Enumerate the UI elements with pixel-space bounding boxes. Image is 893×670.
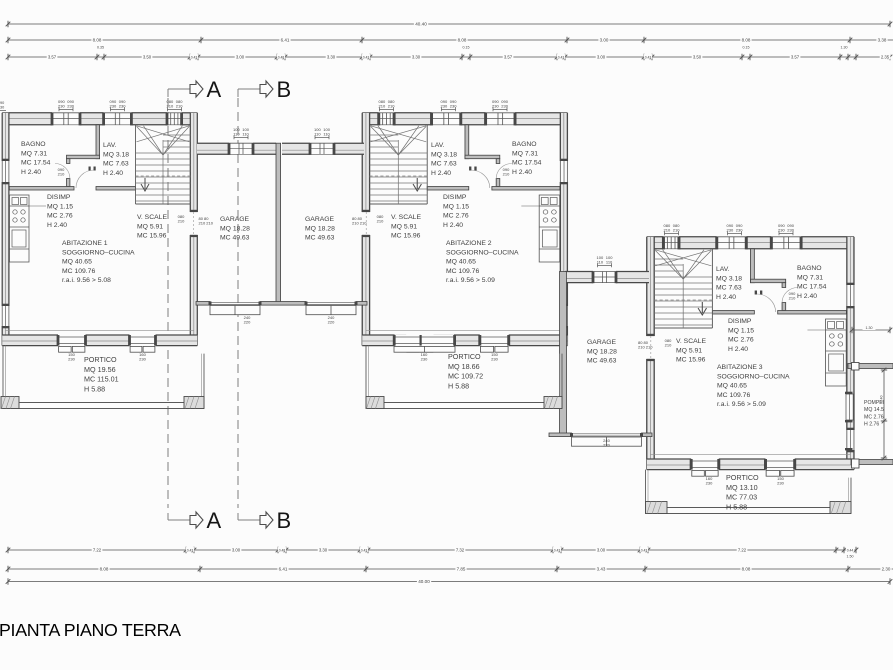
section marker B (238, 508, 291, 533)
svg-text:230: 230 (68, 357, 75, 362)
stair V.SCALE (426, 125, 428, 204)
side door labels (199, 216, 654, 350)
svg-text:MQ 1.15: MQ 1.15 (728, 327, 754, 334)
svg-text:8.08: 8.08 (742, 38, 751, 43)
svg-text:230: 230 (139, 357, 146, 362)
svg-text:DISIMP: DISIMP (728, 318, 752, 325)
svg-text:H 2.40: H 2.40 (431, 170, 451, 177)
svg-text:B: B (277, 508, 292, 533)
svg-text:230: 230 (67, 104, 74, 109)
wall corridor (disimp) (9, 187, 74, 191)
svg-text:3.00: 3.00 (600, 38, 609, 43)
svg-text:SOGGIORNO–CUCINA: SOGGIORNO–CUCINA (446, 249, 519, 256)
svg-text:MC 7.63: MC 7.63 (103, 161, 129, 168)
svg-text:MQ 40.65: MQ 40.65 (717, 383, 747, 390)
svg-text:7.22: 7.22 (93, 548, 102, 553)
svg-text:ABITAZIONE 2: ABITAZIONE 2 (446, 240, 492, 247)
svg-text:230: 230 (736, 228, 743, 233)
svg-text:210: 210 (673, 228, 680, 233)
window left wall lower (560, 306, 567, 326)
svg-text:MQ 14.5: MQ 14.5 (864, 407, 884, 413)
stair V.SCALE (135, 125, 137, 204)
svg-text:MQ 18.66: MQ 18.66 (448, 362, 480, 371)
svg-text:210: 210 (503, 172, 510, 177)
wall bagno-lav divider (96, 125, 100, 159)
svg-text:0.15: 0.15 (463, 45, 470, 49)
portico door symbols 2 (691, 459, 719, 470)
stair V.SCALE (711, 249, 713, 328)
svg-text:H 2.40: H 2.40 (512, 169, 532, 176)
svg-text:210: 210 (377, 219, 384, 224)
svg-text:MQ 5.91: MQ 5.91 (391, 223, 417, 230)
svg-text:1.50: 1.50 (847, 555, 854, 559)
svg-text:H 5.88: H 5.88 (726, 502, 747, 511)
svg-text:210 210: 210 210 (352, 221, 367, 226)
unit outer bottom wall (795, 459, 854, 470)
svg-text:0.35: 0.35 (97, 45, 104, 49)
window left wall upper (2, 161, 9, 182)
svg-text:MC 2.76: MC 2.76 (728, 337, 754, 344)
svg-text:V. SCALE: V. SCALE (137, 214, 167, 221)
svg-text:GARAGE: GARAGE (587, 339, 617, 346)
svg-text:MC 109.76: MC 109.76 (446, 268, 479, 275)
portico door symbols 2 (406, 335, 433, 346)
unit 2 dwelling (mirrored) (362, 113, 568, 352)
svg-text:6.41: 6.41 (279, 567, 288, 572)
window left wall lower (847, 430, 854, 450)
svg-text:MQ 40.65: MQ 40.65 (62, 259, 92, 266)
svg-text:3.38: 3.38 (878, 38, 887, 43)
overhang line (5, 330, 194, 332)
svg-text:SOGGIORNO–CUCINA: SOGGIORNO–CUCINA (717, 373, 790, 380)
svg-text:3.30: 3.30 (327, 55, 336, 60)
svg-text:MQ 18.28: MQ 18.28 (220, 225, 250, 232)
unit outer right wall (362, 113, 369, 212)
svg-text:210: 210 (178, 219, 185, 224)
svg-text:MC 17.54: MC 17.54 (21, 160, 51, 167)
svg-text:90: 90 (0, 101, 4, 105)
svg-text:BAGNO: BAGNO (21, 141, 46, 148)
svg-text:PORTICO: PORTICO (84, 355, 117, 364)
svg-text:BAGNO: BAGNO (797, 265, 822, 272)
svg-text:220: 220 (603, 443, 610, 448)
dim top level2 (6, 36, 893, 43)
label LAV U2 (431, 142, 457, 177)
svg-text:3.57: 3.57 (48, 55, 57, 60)
svg-text:0.43: 0.43 (641, 548, 648, 552)
svg-text:MC 77.03: MC 77.03 (726, 493, 757, 502)
svg-text:110: 110 (323, 132, 330, 137)
unit outer left wall (847, 237, 854, 285)
svg-text:3.50: 3.50 (143, 55, 152, 60)
svg-text:MC 7.63: MC 7.63 (431, 161, 457, 168)
garage 3 top wall (565, 272, 593, 283)
svg-text:3.43: 3.43 (597, 567, 606, 572)
pompe room top wall (848, 364, 893, 369)
svg-text:2.35: 2.35 (881, 55, 890, 60)
dim vertical pompe (883, 370, 885, 458)
svg-text:230: 230 (491, 357, 498, 362)
window top wall 2 (104, 113, 132, 125)
svg-text:r.a.i. 9.56 > 5.08: r.a.i. 9.56 > 5.08 (62, 277, 111, 284)
unit outer left wall (560, 113, 567, 161)
svg-text:MC 49.63: MC 49.63 (220, 235, 250, 242)
wall bagno lower divider (751, 279, 786, 283)
label ABITAZIONE U1 (62, 240, 135, 284)
pompe room bottom wall (851, 460, 893, 465)
unit outer left wall (2, 113, 9, 161)
svg-text:MQ 19.56: MQ 19.56 (84, 365, 116, 374)
section marker A (168, 508, 222, 533)
svg-text:0.48: 0.48 (278, 55, 285, 59)
svg-text:0.15: 0.15 (743, 45, 750, 49)
dim 1.30 right of unit3 (852, 329, 890, 331)
svg-text:0.43: 0.43 (187, 548, 194, 552)
svg-text:MQ 40.65: MQ 40.65 (446, 259, 476, 266)
garage pair bottom wall (196, 302, 210, 306)
svg-text:0.43: 0.43 (361, 548, 368, 552)
wall bagno door jambs (67, 159, 70, 164)
svg-text:MC 2.76: MC 2.76 (443, 213, 469, 220)
svg-text:210: 210 (789, 296, 796, 301)
window labels unit3 (727, 223, 744, 233)
svg-text:MQ 1.15: MQ 1.15 (443, 203, 469, 210)
svg-text:MC 115.01: MC 115.01 (84, 375, 119, 384)
window left wall upper (847, 285, 854, 306)
garage 3 bottom wall (549, 433, 572, 437)
label GARAGE 2 (305, 216, 335, 242)
svg-text:220: 220 (244, 320, 251, 325)
svg-text:MQ 18.28: MQ 18.28 (587, 348, 617, 355)
svg-text:r.a.i. 9.56 > 5.09: r.a.i. 9.56 > 5.09 (717, 401, 766, 408)
svg-text:0.43: 0.43 (191, 55, 198, 59)
svg-text:A: A (207, 508, 222, 533)
window top wall 1 (486, 113, 515, 125)
svg-text:MQ 18.28: MQ 18.28 (305, 225, 335, 232)
svg-text:8.08: 8.08 (458, 38, 467, 43)
svg-text:8.08: 8.08 (100, 567, 109, 572)
svg-text:3.57: 3.57 (504, 55, 513, 60)
svg-text:MC 15.96: MC 15.96 (137, 233, 167, 240)
svg-text:30: 30 (0, 106, 4, 110)
svg-text:H 2.40: H 2.40 (47, 222, 67, 229)
svg-text:MC 49.63: MC 49.63 (305, 235, 335, 242)
svg-text:0.48: 0.48 (279, 548, 286, 552)
wall bagno-lav divider (751, 249, 755, 283)
unit outer bottom wall (2, 335, 58, 346)
garage 3 window (593, 272, 616, 283)
svg-text:DISIMP: DISIMP (443, 194, 467, 201)
door labels unit1 bottom (68, 352, 75, 362)
kitchen counter (539, 195, 560, 262)
svg-text:MQ 5.91: MQ 5.91 (137, 223, 163, 230)
svg-text:DISIMP: DISIMP (47, 194, 71, 201)
svg-text:40.00: 40.00 (418, 579, 430, 584)
svg-text:MC 7.63: MC 7.63 (716, 285, 742, 292)
dim bottom level1 (6, 547, 859, 554)
svg-text:110: 110 (242, 132, 249, 137)
window top wall 1 (771, 237, 801, 249)
svg-text:3.00: 3.00 (236, 55, 245, 60)
corner dim specks top-left (0, 101, 4, 110)
svg-text:MQ 13.10: MQ 13.10 (726, 483, 758, 492)
svg-text:210 210: 210 210 (199, 221, 214, 226)
door to garage jambs (362, 210, 370, 212)
svg-text:MC 109.72: MC 109.72 (448, 372, 483, 381)
svg-text:210 210: 210 210 (638, 345, 653, 350)
label LAV U1 (103, 142, 129, 177)
garage 3 door (572, 433, 642, 435)
unit outer top wall (2, 113, 52, 125)
svg-text:H 2.40: H 2.40 (716, 294, 736, 301)
svg-text:230: 230 (119, 104, 126, 109)
unit3 right wall door to pompe (846, 394, 853, 420)
svg-text:MC 49.63: MC 49.63 (587, 358, 617, 365)
svg-text:220: 220 (328, 320, 335, 325)
svg-text:MC 15.96: MC 15.96 (391, 233, 421, 240)
unit 1 dwelling (2, 113, 198, 352)
label LAV U3 (716, 266, 742, 301)
window top wall 1 (52, 113, 80, 125)
garage 3 left wall (below unit2) (560, 272, 567, 437)
svg-text:MQ 7.31: MQ 7.31 (21, 150, 47, 157)
svg-text:8.08: 8.08 (742, 567, 751, 572)
label BAGNO U1 (21, 141, 51, 176)
svg-text:8.08: 8.08 (93, 38, 102, 43)
window labels garages (233, 127, 250, 137)
unit outer bottom wall (509, 335, 568, 346)
window left wall upper (560, 161, 567, 182)
label PORTICO 1 (84, 355, 119, 393)
svg-text:2.30: 2.30 (882, 567, 891, 572)
label VSCALE U1 (137, 214, 167, 240)
label ABITAZIONE U2 (446, 240, 519, 284)
svg-text:GARAGE: GARAGE (305, 216, 335, 223)
svg-text:POMPEI: POMPEI (864, 400, 884, 406)
svg-text:ABITAZIONE 1: ABITAZIONE 1 (62, 240, 108, 247)
svg-text:BAGNO: BAGNO (512, 141, 537, 148)
label PORTICO 2 (448, 352, 483, 390)
svg-text:MC 109.76: MC 109.76 (62, 268, 95, 275)
svg-text:H 2.40: H 2.40 (21, 169, 41, 176)
svg-text:MQ 3.18: MQ 3.18 (716, 275, 742, 282)
garage 2 door (306, 301, 356, 303)
dim top overall 40.40 (6, 20, 893, 27)
unit outer right wall (647, 237, 654, 336)
svg-text:3.57: 3.57 (791, 55, 800, 60)
svg-text:H 2.40: H 2.40 (103, 170, 123, 177)
label VSCALE U3 (676, 338, 706, 364)
svg-text:210: 210 (176, 104, 183, 109)
label GARAGE 3 (587, 339, 617, 365)
svg-text:210: 210 (665, 343, 672, 348)
svg-text:230: 230 (450, 104, 457, 109)
svg-text:3.00: 3.00 (232, 548, 241, 553)
svg-text:H 5.88: H 5.88 (448, 381, 469, 390)
svg-text:LAV.: LAV. (431, 142, 445, 149)
svg-text:LAV.: LAV. (103, 142, 117, 149)
svg-text:110: 110 (606, 260, 613, 265)
unit outer top wall (515, 113, 567, 125)
window top wall 2 (717, 237, 747, 249)
label VSCALE U2 (391, 214, 421, 240)
svg-text:H 2.76: H 2.76 (864, 422, 879, 428)
label ABITAZIONE U3 (717, 364, 790, 408)
entry door top wall (167, 113, 182, 125)
svg-text:0.43: 0.43 (554, 548, 561, 552)
svg-text:3.30: 3.30 (319, 548, 328, 553)
svg-text:MC 109.76: MC 109.76 (717, 392, 750, 399)
section line A (167, 98, 169, 508)
door to garage jambs (190, 210, 198, 212)
svg-text:MQ 7.31: MQ 7.31 (512, 150, 538, 157)
svg-text:MQ 7.31: MQ 7.31 (797, 274, 823, 281)
portico 1 (1, 346, 204, 409)
label BAGNO U2 (512, 141, 542, 176)
dim top level3 (6, 54, 893, 61)
svg-text:0.43: 0.43 (558, 55, 565, 59)
dim bottom overall 40.00 (6, 578, 893, 585)
svg-text:V. SCALE: V. SCALE (391, 214, 421, 221)
portico door symbols 1 (480, 335, 509, 346)
svg-text:0.43: 0.43 (363, 55, 370, 59)
garage 2 window (310, 143, 334, 154)
bagno door labels (58, 167, 796, 301)
garage 1 door (210, 301, 260, 303)
svg-text:MC 15.96: MC 15.96 (676, 357, 706, 364)
wall bagno lower divider (67, 155, 100, 159)
svg-text:1.30: 1.30 (866, 326, 873, 330)
svg-text:MQ 3.18: MQ 3.18 (103, 151, 129, 158)
window top wall 2 (432, 113, 461, 125)
garage 1 window (229, 143, 253, 154)
dim small labels above (94, 44, 107, 49)
svg-text:0.44: 0.44 (847, 548, 854, 552)
window labels unit2 (441, 99, 458, 109)
entry door top wall (663, 237, 679, 249)
label PORTICO 3 (726, 473, 759, 511)
window left wall lower (2, 306, 9, 326)
portico 3 (646, 470, 852, 514)
section marker A (168, 77, 222, 102)
label POMPE (864, 400, 884, 428)
wall bagno-lav divider (465, 125, 469, 159)
svg-text:H 2.40: H 2.40 (443, 222, 463, 229)
svg-text:GARAGE: GARAGE (220, 216, 250, 223)
svg-text:H 2.40: H 2.40 (728, 346, 748, 353)
svg-text:0.43: 0.43 (645, 55, 652, 59)
portico 2 (366, 346, 562, 409)
svg-text:230: 230 (501, 104, 508, 109)
pompe junction post top (852, 363, 860, 371)
svg-text:1.30: 1.30 (841, 45, 848, 49)
svg-text:7.85: 7.85 (457, 567, 466, 572)
garage pair top wall (197, 143, 229, 154)
overhang line (650, 454, 850, 456)
portico door symbols 2 (130, 335, 156, 346)
svg-text:B: B (277, 77, 292, 102)
svg-text:H 2.40: H 2.40 (797, 293, 817, 300)
unit outer top wall (801, 237, 854, 249)
svg-text:230: 230 (777, 481, 784, 486)
svg-text:PIANTA PIANO TERRA: PIANTA PIANO TERRA (0, 620, 181, 640)
svg-text:210: 210 (58, 172, 65, 177)
svg-text:A: A (207, 77, 222, 102)
svg-text:230: 230 (706, 481, 713, 486)
dim bottom small label 1.50 (844, 554, 857, 559)
door labels unit3 bottom (777, 476, 784, 486)
svg-text:PORTICO: PORTICO (448, 352, 481, 361)
label DISIMP U3 (728, 318, 754, 353)
wall bagno lower divider (465, 155, 500, 159)
svg-text:3.30: 3.30 (412, 55, 421, 60)
garage door labels (244, 315, 251, 325)
stair door labels (178, 214, 672, 348)
svg-text:3.00: 3.00 (597, 55, 606, 60)
svg-text:V. SCALE: V. SCALE (676, 338, 706, 345)
unit 3 dwelling (mirrored, offset) (646, 237, 854, 476)
unit2 wide portico window (395, 334, 454, 346)
section line B (237, 98, 239, 508)
svg-text:6.41: 6.41 (281, 38, 290, 43)
entry door top wall (379, 113, 394, 125)
svg-text:ABITAZIONE 3: ABITAZIONE 3 (717, 364, 763, 371)
label DISIMP U1 (47, 194, 73, 229)
wall corridor (disimp) (492, 187, 560, 191)
section marker B (238, 77, 291, 102)
wall bagno door jambs (496, 159, 500, 164)
svg-text:r.a.i. 9.56 > 5.09: r.a.i. 9.56 > 5.09 (446, 277, 495, 284)
svg-text:MC 17.54: MC 17.54 (797, 284, 827, 291)
portico door symbols 1 (58, 335, 86, 346)
kitchen counter (826, 319, 847, 386)
label BAGNO U3 (797, 265, 827, 300)
door to garage jambs (646, 334, 654, 336)
svg-text:PORTICO: PORTICO (726, 473, 759, 482)
portico door symbols 1 (765, 459, 794, 470)
wall bagno door jambs (782, 283, 786, 288)
svg-text:MC 2.76: MC 2.76 (864, 414, 884, 420)
svg-text:3.00: 3.00 (597, 548, 606, 553)
garage pair middle wall (276, 143, 281, 305)
pompe junction post bottom (852, 459, 860, 468)
svg-text:H 5.88: H 5.88 (84, 384, 105, 393)
svg-text:MQ 1.15: MQ 1.15 (47, 203, 73, 210)
svg-text:LAV.: LAV. (716, 266, 730, 273)
kitchen counter (10, 195, 30, 262)
window labels unit1 (58, 99, 75, 109)
dim bottom level2 (6, 565, 893, 572)
svg-text:230: 230 (787, 228, 794, 233)
svg-text:7.32: 7.32 (456, 548, 465, 553)
svg-text:MQ 5.91: MQ 5.91 (676, 347, 702, 354)
wall corridor (disimp) (778, 311, 847, 315)
svg-text:40.40: 40.40 (415, 22, 427, 27)
label DISIMP U2 (443, 194, 469, 229)
label GARAGE 1 (220, 216, 250, 242)
svg-text:230: 230 (421, 357, 428, 362)
svg-text:7.22: 7.22 (738, 548, 747, 553)
door labels unit2 bottom (491, 352, 498, 362)
svg-text:MC 2.76: MC 2.76 (47, 213, 73, 220)
svg-text:MQ 3.18: MQ 3.18 (431, 151, 457, 158)
unit outer right wall (190, 113, 197, 212)
svg-text:3.50: 3.50 (693, 55, 702, 60)
overhang line (366, 330, 564, 332)
svg-text:210: 210 (388, 104, 395, 109)
svg-text:MC 17.54: MC 17.54 (512, 160, 542, 167)
svg-text:SOGGIORNO–CUCINA: SOGGIORNO–CUCINA (62, 249, 135, 256)
